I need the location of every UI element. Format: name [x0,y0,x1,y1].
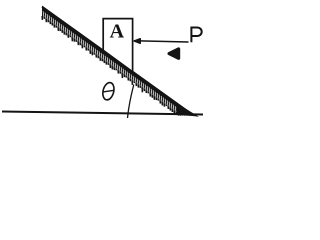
svg-text:A: A [110,21,125,43]
